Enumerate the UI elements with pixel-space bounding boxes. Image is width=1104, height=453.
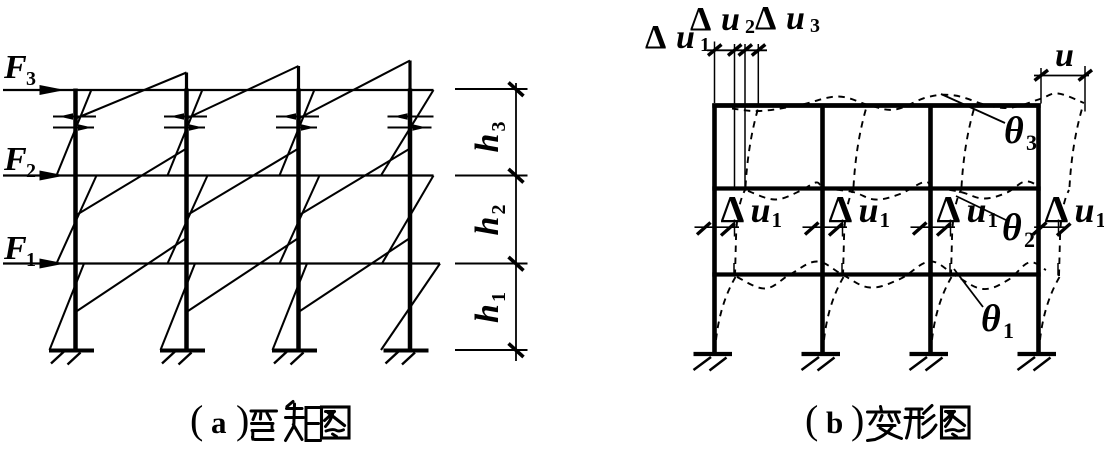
svg-text:u: u <box>1055 37 1074 74</box>
drift dimension delta-u1 at column 1 floor 2 <box>695 226 740 228</box>
deformed column 4 story 1 (dashed) <box>1039 277 1060 352</box>
drift dimension delta-u1 at column 3 floor 2 <box>911 226 956 228</box>
svg-text:h: h <box>469 304 506 323</box>
shear couple arrows at column 3 top story <box>276 116 319 118</box>
moment line column 2 story 3 <box>168 90 203 176</box>
svg-text:u: u <box>721 1 740 38</box>
svg-text:Δ: Δ <box>937 189 961 231</box>
svg-text:u: u <box>1075 190 1095 230</box>
svg-text:θ: θ <box>1004 110 1024 152</box>
moment line column 1 story 2 <box>57 176 97 264</box>
svg-text:F: F <box>3 49 27 86</box>
force arrow F2 <box>40 171 66 181</box>
svg-text:3: 3 <box>1026 130 1037 155</box>
svg-text:2: 2 <box>745 16 755 38</box>
leader line theta-3 <box>941 94 1005 123</box>
deformed column 2 story 2 (dashed) <box>843 190 853 276</box>
wire beam level 1 of frame (a) with force shaft <box>3 262 440 264</box>
svg-text:θ: θ <box>981 298 1001 340</box>
leader line theta-1 <box>954 269 983 307</box>
deformed column 1 story 2 (dashed) <box>735 190 745 276</box>
svg-text:h: h <box>469 217 506 236</box>
svg-text:1: 1 <box>880 208 891 232</box>
fixed support under column 2 of frame (a) <box>160 349 205 353</box>
beam moment diagonal span 2 roof level <box>187 66 299 119</box>
column 3 of frame (a) <box>296 89 301 351</box>
beam moment diagonal span 1 floor 2 <box>76 149 187 216</box>
dimension tick at y=263.5 <box>455 263 528 265</box>
svg-text:u: u <box>786 0 805 37</box>
deformed floor-1 beam wave (dashed) <box>737 261 1046 289</box>
fixed support under column 4 of frame (b) <box>1018 352 1057 356</box>
svg-text:Δ: Δ <box>1045 189 1069 231</box>
moment line column 3 story 1 <box>273 264 308 351</box>
caption (b) character 变 <box>868 407 902 441</box>
deformed column 3 story 2 (dashed) <box>951 190 961 276</box>
svg-text:θ: θ <box>1002 207 1022 249</box>
svg-text:Δ: Δ <box>829 189 853 231</box>
wire beam level 2 of frame (a) with force shaft <box>3 174 434 176</box>
fixed support under column 1 of frame (b) <box>694 352 733 356</box>
caption (a) character 弯 <box>251 411 277 440</box>
deformed column 2 story 3 (dashed) <box>854 107 867 187</box>
fixed support under column 2 of frame (b) <box>802 352 841 356</box>
svg-text:Δ: Δ <box>690 1 711 38</box>
beam moment diagonal span 3 floor 2 <box>299 149 411 216</box>
dimension slash at x=714.5 <box>708 45 722 56</box>
svg-text:1: 1 <box>772 208 783 232</box>
dimension for total drift u <box>1034 75 1089 77</box>
moment line column 4 story 3 <box>381 90 434 176</box>
force arrow F3 <box>40 85 66 95</box>
column 4 of frame (b) <box>1036 104 1041 354</box>
caption (b) character 形 <box>905 406 936 439</box>
svg-text:): ) <box>236 397 249 442</box>
wire roof beam of frame (b) <box>712 103 1040 108</box>
force arrow F1 <box>40 259 66 269</box>
svg-text:F: F <box>3 141 27 178</box>
svg-text:Δ: Δ <box>755 0 776 37</box>
svg-text:(: ( <box>190 397 203 442</box>
moment line column 2 story 1 <box>161 264 196 351</box>
moment line column 3 story 2 <box>280 176 320 264</box>
caption (a) character 图 <box>322 407 350 438</box>
label h1 <box>469 292 510 323</box>
wire floor-1 beam of frame (b) <box>712 272 1040 276</box>
moment line column 4 story 2 <box>382 176 434 264</box>
shear couple arrows at column 4 top story <box>388 116 434 118</box>
svg-text:2: 2 <box>26 160 36 182</box>
moment line column 1 story 1 <box>50 264 85 351</box>
svg-text:): ) <box>851 397 864 442</box>
svg-text:Δ: Δ <box>721 189 745 231</box>
svg-text:1: 1 <box>488 292 510 302</box>
caption (b) character 图 <box>942 407 970 438</box>
drift dimension delta-u1 at column 2 floor 2 <box>803 226 848 228</box>
moment line column 1 story 3 <box>57 90 92 176</box>
beam moment diagonal span 3 floor 1 <box>299 238 411 312</box>
deformed column 2 story 1 (dashed) <box>823 277 844 352</box>
svg-text:(: ( <box>805 397 818 442</box>
deformed floor-2 beam wave (dashed) <box>748 181 1040 199</box>
leader line theta-2 <box>956 196 1008 221</box>
column 4 of frame (a) <box>408 89 413 351</box>
column 1 of frame (b) <box>712 104 717 354</box>
column 1 of frame (a) <box>73 89 78 351</box>
svg-text:h: h <box>469 134 506 153</box>
svg-text:2: 2 <box>1024 227 1035 252</box>
svg-text:1: 1 <box>1096 208 1104 232</box>
dimension tick at y=175.5 <box>455 175 528 177</box>
beam moment diagonal span 2 floor 2 <box>187 149 299 216</box>
label h2 <box>469 205 510 236</box>
fixed support under column 4 of frame (a) <box>384 349 429 353</box>
wire floor-2 beam of frame (b) <box>712 186 1040 190</box>
svg-text:b: b <box>826 405 843 440</box>
column 2 of frame (a) <box>184 89 189 351</box>
svg-text:3: 3 <box>26 68 36 90</box>
svg-text:Δ: Δ <box>645 19 666 56</box>
fixed support under column 1 of frame (a) <box>49 349 94 353</box>
beam moment diagonal span 1 floor 1 <box>76 238 187 312</box>
moment line column 4 story 1 <box>381 264 440 351</box>
wire beam level 3 of frame (a) with force shaft <box>3 89 434 91</box>
dimension tick at y=350.0 <box>455 349 528 351</box>
shear couple arrows at column 2 top story <box>164 116 207 118</box>
dimension tick at y=89.0 <box>455 88 528 90</box>
svg-text:3: 3 <box>810 15 820 37</box>
svg-text:2: 2 <box>488 205 510 215</box>
moment line column 3 story 3 <box>280 90 315 176</box>
deformed column 3 story 1 (dashed) <box>931 277 952 352</box>
beam moment diagonal span 2 floor 1 <box>187 238 299 312</box>
svg-text:3: 3 <box>488 122 510 132</box>
moment line column 2 story 2 <box>168 176 208 264</box>
caption (a) character 矩 <box>286 402 321 441</box>
column 3 of frame (b) <box>928 104 933 354</box>
dimension extension lines for story drifts <box>714 42 716 104</box>
dimension slash at x=734.5 <box>728 45 742 56</box>
dimension slash at x=758.3 <box>752 45 766 56</box>
label h3 <box>469 122 510 153</box>
svg-text:1: 1 <box>1003 318 1014 343</box>
svg-text:a: a <box>211 405 227 440</box>
fixed support under column 3 of frame (a) <box>272 349 317 353</box>
dimension chain line <box>515 83 517 361</box>
deformed column 4 story 2 (dashed) <box>1059 190 1069 276</box>
dimension slash at x=745.0 <box>739 45 753 56</box>
deformed column 1 story 3 (dashed) <box>746 107 759 187</box>
svg-text:1: 1 <box>26 249 36 271</box>
deformed column 4 story 3 (dashed) <box>1070 107 1083 187</box>
deformed column 3 story 3 (dashed) <box>962 107 975 187</box>
svg-text:F: F <box>3 230 27 267</box>
fixed support under column 3 of frame (b) <box>910 352 949 356</box>
deformed roof beam wave (dashed) <box>732 93 1084 111</box>
column 2 of frame (b) <box>820 104 825 354</box>
drift dimension delta-u1 at column 4 floor 2 <box>1034 226 1067 228</box>
shear couple arrows at column 1 top story <box>53 116 96 118</box>
beam moment diagonal span 3 roof level <box>299 61 411 119</box>
deformed column 1 story 1 (dashed) <box>715 277 736 352</box>
beam moment diagonal span 1 roof level <box>76 73 187 119</box>
dimension line for story drifts <box>707 49 767 51</box>
